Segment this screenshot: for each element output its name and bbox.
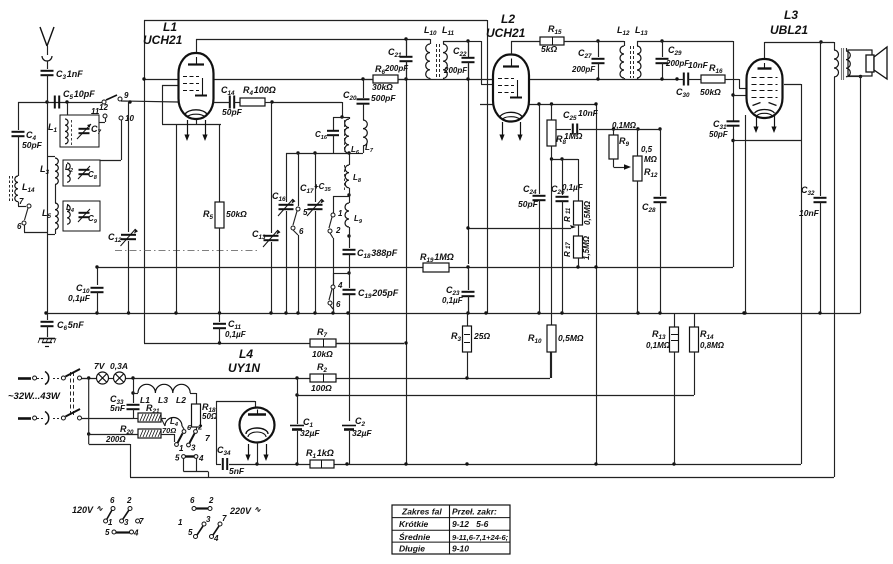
tank L4/C9 box [63, 201, 100, 231]
wire voice coil return [846, 76, 862, 313]
svg-text:2: 2 [126, 496, 132, 505]
junction [576, 265, 579, 268]
svg-text:5nF: 5nF [229, 466, 245, 476]
svg-text:0,8MΩ: 0,8MΩ [700, 341, 725, 350]
wire R4 output to oscillator corner [272, 102, 343, 117]
capacitor C1 (electrolytic) [290, 378, 320, 464]
label 220V [229, 505, 261, 516]
capacitor C27 [571, 41, 605, 79]
svg-text:1: 1 [179, 444, 184, 453]
svg-text:0,1MΩ: 0,1MΩ [646, 341, 671, 350]
junction [142, 77, 145, 80]
junction [859, 75, 862, 78]
junction [660, 77, 663, 80]
wire diode grid line [733, 95, 748, 97]
capacitor C19 [343, 267, 399, 313]
output transformer [834, 48, 850, 80]
wire detector vertical x=733 [662, 41, 734, 267]
junction [466, 77, 469, 80]
svg-text:32µF: 32µF [352, 428, 372, 438]
svg-text:1,5MΩ: 1,5MΩ [582, 235, 591, 260]
svg-text:100Ω: 100Ω [311, 383, 332, 393]
svg-text:2: 2 [208, 496, 214, 505]
svg-text:10kΩ: 10kΩ [312, 349, 333, 359]
svg-text:6: 6 [190, 496, 195, 505]
svg-text:220V: 220V [229, 506, 252, 516]
inductor L14 [10, 176, 36, 202]
capacitor C28 [642, 129, 667, 313]
junction [347, 151, 350, 154]
capacitor C13 trimmer [252, 102, 281, 313]
switch contacts 11-10 [91, 107, 134, 161]
junction [636, 311, 639, 314]
svg-text:L2: L2 [176, 395, 186, 405]
junction [128, 100, 131, 103]
junction [95, 265, 98, 268]
junction [658, 127, 661, 130]
junction [65, 100, 68, 103]
junction [313, 151, 316, 154]
resistor R2 [310, 362, 336, 393]
wire cathode to ground x=745 [745, 141, 747, 314]
wire ground bus y=313 [46, 313, 861, 315]
inductor L7 [349, 120, 374, 154]
svg-text:4: 4 [133, 529, 139, 538]
svg-text:~32W...43W: ~32W...43W [8, 391, 61, 402]
capacitor C4 [12, 102, 43, 176]
wire bus1 HT rail y=79 [144, 79, 677, 81]
svg-text:UY1N: UY1N [228, 361, 260, 375]
junction [466, 311, 469, 314]
svg-text:2: 2 [335, 226, 341, 235]
switch contacts 12-9 (antenna) [99, 91, 129, 112]
junction [270, 100, 273, 103]
svg-text:6: 6 [110, 496, 115, 505]
svg-text:L3: L3 [784, 8, 798, 22]
junction [346, 311, 349, 314]
wire UY1N cathode [257, 443, 259, 465]
svg-text:7: 7 [222, 514, 227, 523]
svg-text:0,5: 0,5 [641, 145, 653, 154]
heater chokes L1 L3 L2 [133, 384, 197, 405]
wire transformer primary feed x=834 [834, 42, 836, 477]
capacitor C25 [556, 108, 660, 135]
capacitor C15 [315, 117, 350, 153]
wire L2 top cap to R15 [511, 41, 540, 55]
svg-text:4: 4 [198, 454, 204, 463]
resistor R21 (hatched) [133, 403, 166, 422]
resistor R7 [310, 327, 404, 359]
svg-text:0,1µF: 0,1µF [225, 330, 247, 339]
svg-text:UCH21: UCH21 [143, 33, 183, 47]
junction [295, 462, 298, 465]
svg-text:0,1µF: 0,1µF [442, 296, 464, 305]
junction [269, 311, 272, 314]
svg-text:0,1MΩ: 0,1MΩ [612, 121, 637, 130]
capacitor C21 [384, 39, 413, 79]
svg-text:5kΩ: 5kΩ [541, 44, 557, 54]
wire y=153 line [286, 153, 349, 155]
svg-text:Długie: Długie [399, 544, 425, 554]
svg-text:Średnie: Średnie [399, 531, 430, 542]
junction [44, 311, 47, 314]
junction [345, 462, 348, 465]
junction [818, 311, 821, 314]
svg-text:R: R [563, 216, 572, 222]
junction [537, 311, 540, 314]
resistor R11 potentiometer [563, 159, 592, 236]
resistor R12 potentiometer [633, 129, 658, 313]
wire B+ vertical x=406 [406, 39, 408, 464]
junction [404, 341, 407, 344]
svg-text:1: 1 [338, 209, 343, 218]
wire node 159 [552, 159, 579, 161]
wire C31 to cathode [733, 140, 745, 142]
junction [466, 39, 469, 42]
junction [594, 265, 597, 268]
label 120V [72, 504, 103, 515]
svg-text:50kΩ: 50kΩ [226, 209, 247, 219]
resistor R3 [451, 313, 490, 378]
svg-text:6: 6 [336, 300, 341, 309]
svg-text:11: 11 [91, 107, 100, 116]
capacitor C29 [656, 41, 691, 79]
capacitor C22 [443, 41, 475, 79]
svg-text:50Ω: 50Ω [202, 412, 218, 421]
svg-text:7: 7 [19, 197, 24, 206]
svg-text:200pF: 200pF [665, 59, 690, 68]
wire B+ anode line top (L1 plate to IFT1) [196, 39, 430, 53]
wire IF secondary vertical x=468 [468, 41, 470, 313]
ground [38, 338, 56, 347]
mains input upper [18, 369, 89, 385]
resistor R18 [192, 402, 218, 427]
IF transformer L10/L11 [424, 25, 468, 79]
inductor L3 antenna [40, 157, 58, 185]
junction [404, 462, 407, 465]
resistor R13 [646, 313, 679, 464]
wire cathode box [745, 115, 801, 141]
tank L1/C7 box [48, 102, 102, 147]
junction [742, 311, 745, 314]
svg-text:UCH21: UCH21 [486, 26, 526, 40]
resistor R6 [363, 64, 406, 92]
junction [594, 102, 597, 105]
inductor L4 70ohm [161, 417, 184, 435]
resistor R5 [203, 124, 247, 313]
resistor R4 [240, 85, 276, 106]
svg-text:∿: ∿ [254, 505, 261, 514]
junction [465, 462, 468, 465]
capacitor C20 [343, 79, 396, 120]
svg-text:1: 1 [108, 518, 113, 527]
junction [340, 115, 343, 118]
junction [731, 93, 734, 96]
capacitor C6 [41, 313, 85, 337]
junction [404, 77, 407, 80]
heater arrows L2 [499, 122, 522, 141]
table Zakres fal [392, 505, 510, 554]
wire grid feed to L2 [468, 41, 494, 85]
switch contacts 4-6 [328, 273, 349, 313]
svg-text:10nF: 10nF [799, 208, 820, 218]
label C30 [676, 60, 709, 99]
svg-text:200Ω: 200Ω [105, 435, 126, 444]
capacitor C31 [709, 119, 740, 139]
resistor R19 [420, 252, 454, 272]
svg-text:5: 5 [188, 528, 193, 537]
svg-text:5: 5 [303, 208, 308, 217]
capacitor C3 [41, 69, 84, 102]
voltage selector contacts [175, 423, 211, 454]
inductor L6 [345, 119, 360, 156]
svg-text:12: 12 [99, 103, 108, 112]
junction [466, 226, 469, 229]
capacitor C2 (electrolytic) [342, 416, 372, 438]
wire heater bus y=378 [80, 352, 551, 379]
svg-text:5: 5 [105, 528, 110, 537]
svg-text:2: 2 [197, 423, 203, 432]
tank L2/C8 box [63, 160, 100, 186]
junction [636, 127, 639, 130]
svg-text:3: 3 [124, 518, 129, 527]
svg-text:10nF: 10nF [578, 108, 599, 118]
pilot lamp 0.3A [110, 361, 128, 384]
junction [596, 77, 599, 80]
junction [550, 157, 553, 160]
wire bus2b L2 cathode line y=104 [480, 104, 596, 106]
inductor L8 [345, 153, 362, 195]
junction [465, 376, 468, 379]
svg-text:Krótkie: Krótkie [399, 519, 429, 529]
label L2 [486, 12, 526, 40]
resistor R1 [306, 448, 334, 468]
switch gang dashed link [71, 372, 74, 416]
svg-text:500pF: 500pF [371, 93, 396, 103]
inductor L9 [345, 195, 363, 236]
svg-text:11: 11 [566, 207, 572, 214]
capacitor C11 [213, 313, 247, 343]
junction [361, 77, 364, 80]
loudspeaker [848, 47, 887, 79]
wire AVC bus y=267 right [449, 267, 733, 269]
wire AVC bus y=267 left [97, 267, 423, 269]
junction [87, 376, 90, 379]
svg-text:5: 5 [175, 454, 180, 463]
svg-text:MΩ: MΩ [644, 155, 658, 164]
svg-text:120V: 120V [72, 505, 94, 515]
svg-text:3: 3 [191, 444, 196, 453]
resistor R9 [609, 121, 637, 170]
label L3 [770, 8, 808, 37]
resistor R20 (hatched) [89, 424, 175, 444]
svg-text:200pF: 200pF [571, 65, 596, 74]
capacitor C5 [55, 89, 95, 109]
svg-text:200pF: 200pF [443, 66, 468, 75]
junction [87, 432, 90, 435]
svg-text:3: 3 [206, 515, 211, 524]
wire C2 feed x=348 [349, 313, 351, 464]
tube L2 UCH21 [493, 55, 529, 122]
wire section box right edge [487, 20, 489, 313]
wire antenna down x=47 [47, 102, 49, 313]
svg-text:25Ω: 25Ω [473, 331, 490, 341]
junction [594, 462, 597, 465]
junction [95, 311, 98, 314]
junction [284, 311, 287, 314]
svg-text:0,5MΩ: 0,5MΩ [583, 200, 592, 225]
mains input lower [18, 409, 133, 425]
junction [484, 311, 487, 314]
wire B+ bus y=464 [216, 464, 801, 466]
svg-text:50pF: 50pF [22, 140, 43, 150]
junction [550, 102, 553, 105]
wire screen vertical x=596 [596, 104, 598, 464]
wire R18 to selector [196, 427, 198, 430]
svg-text:L1: L1 [163, 20, 177, 34]
junction [295, 393, 298, 396]
wire L1 cathode to ground [176, 124, 178, 313]
svg-text:7V: 7V [94, 361, 106, 371]
svg-text:9-11,6-7,1+24-6;: 9-11,6-7,1+24-6; [452, 533, 509, 542]
resistor R14 [690, 313, 725, 395]
svg-text:0,1µF: 0,1µF [68, 293, 91, 303]
svg-text:70Ω: 70Ω [162, 426, 176, 435]
svg-text:L3: L3 [158, 395, 168, 405]
svg-text:∿: ∿ [96, 504, 103, 513]
wire lamp junction down [133, 378, 135, 403]
svg-text:0,5MΩ: 0,5MΩ [558, 333, 584, 343]
svg-text:17: 17 [566, 242, 572, 249]
junction [295, 376, 298, 379]
svg-text:UBL21: UBL21 [770, 23, 808, 37]
svg-text:0,3A: 0,3A [110, 361, 128, 371]
junction [174, 311, 177, 314]
junction [127, 311, 130, 314]
IF transformer L12/L13 [598, 25, 662, 79]
heater arrows L1 [184, 120, 207, 141]
junction [675, 77, 678, 80]
junction [347, 271, 350, 274]
inductor L5 [42, 184, 58, 234]
svg-text:9: 9 [124, 91, 129, 100]
junction [347, 193, 350, 196]
resistor R10 [528, 159, 584, 378]
junction [296, 151, 299, 154]
capacitor C12 trimmer [108, 102, 138, 313]
pilot lamp 7V [94, 361, 109, 384]
svg-text:Przeł. zakr:: Przeł. zakr: [452, 507, 497, 517]
junction [255, 462, 258, 465]
junction [537, 102, 540, 105]
svg-text:1: 1 [178, 518, 183, 527]
svg-text:6: 6 [17, 222, 22, 231]
wire L3 top cap [765, 42, 835, 59]
resistor R17 [563, 235, 591, 267]
capacitor C33 [110, 394, 140, 418]
svg-text:200pF: 200pF [384, 64, 409, 73]
switch contacts 5-6 [291, 153, 308, 313]
svg-text:5nF: 5nF [110, 403, 126, 413]
junction [560, 311, 563, 314]
capacitor C32 [799, 42, 827, 313]
resistor R8 [547, 104, 583, 159]
selector diagram 220V [178, 496, 227, 543]
svg-text:50pF: 50pF [518, 199, 539, 209]
svg-text:10nF: 10nF [688, 60, 709, 70]
junction [612, 127, 615, 130]
svg-text:32µF: 32µF [300, 428, 320, 438]
svg-text:Zakres fal: Zakres fal [401, 507, 442, 517]
junction [331, 311, 334, 314]
label L4 UY1N [228, 347, 260, 375]
junction [672, 462, 675, 465]
svg-text:30kΩ: 30kΩ [372, 82, 393, 92]
wire screen bus y=343 [144, 20, 404, 344]
wire grid line left (antenna input) y=102 [18, 102, 104, 104]
svg-text:50pF: 50pF [709, 130, 729, 139]
wire section box top [144, 20, 487, 22]
svg-text:50pF: 50pF [222, 107, 243, 117]
antenna [40, 27, 54, 69]
wire anode x=801 [784, 84, 802, 464]
wire grid line to L1 [121, 101, 178, 102]
svg-text:0,1µF: 0,1µF [562, 183, 584, 192]
junction [45, 100, 48, 103]
selector link 5-4 [175, 454, 209, 478]
capacitor C30 (series, 10nF) [677, 73, 701, 86]
junction [660, 39, 663, 42]
switch contact 7-6 (band) [17, 197, 47, 233]
svg-text:L4: L4 [239, 347, 253, 361]
tube L1 UCH21 [179, 53, 214, 119]
junction [296, 311, 299, 314]
capacitor C23 [442, 267, 475, 313]
junction [218, 341, 221, 344]
junction [218, 311, 221, 314]
label mains [8, 391, 61, 402]
capacitor C26 [551, 159, 584, 313]
capacitor C17+C35 trimmer [300, 153, 332, 313]
wire anode UY1N [216, 401, 256, 464]
junction [131, 376, 134, 379]
wire bus y=395 [297, 395, 694, 397]
svg-text:4: 4 [337, 281, 343, 290]
capacitor C34 (series 5nF) [217, 445, 245, 476]
capacitor C14 [214, 85, 243, 117]
svg-text:L2: L2 [501, 12, 515, 26]
tube L3 UBL21 [747, 59, 783, 118]
capacitor C10 [68, 267, 104, 313]
svg-text:R: R [563, 251, 572, 257]
junction [596, 39, 599, 42]
svg-text:4: 4 [213, 534, 219, 543]
capacitor C24 [518, 104, 546, 313]
junction [466, 265, 469, 268]
capacitor C16 trimmer [272, 153, 296, 313]
junction [404, 37, 407, 40]
svg-text:9-10: 9-10 [452, 544, 469, 554]
capacitor C18 [343, 236, 398, 267]
wire L1 cathode bracket [162, 85, 221, 125]
switch contacts 1-2 [328, 196, 349, 313]
selector diagram 120V [104, 496, 144, 538]
junction [313, 311, 316, 314]
resistor R16 [700, 63, 750, 97]
junction [731, 139, 734, 142]
wire R11 feed y=228 [468, 225, 576, 229]
svg-text:50kΩ: 50kΩ [700, 87, 721, 97]
